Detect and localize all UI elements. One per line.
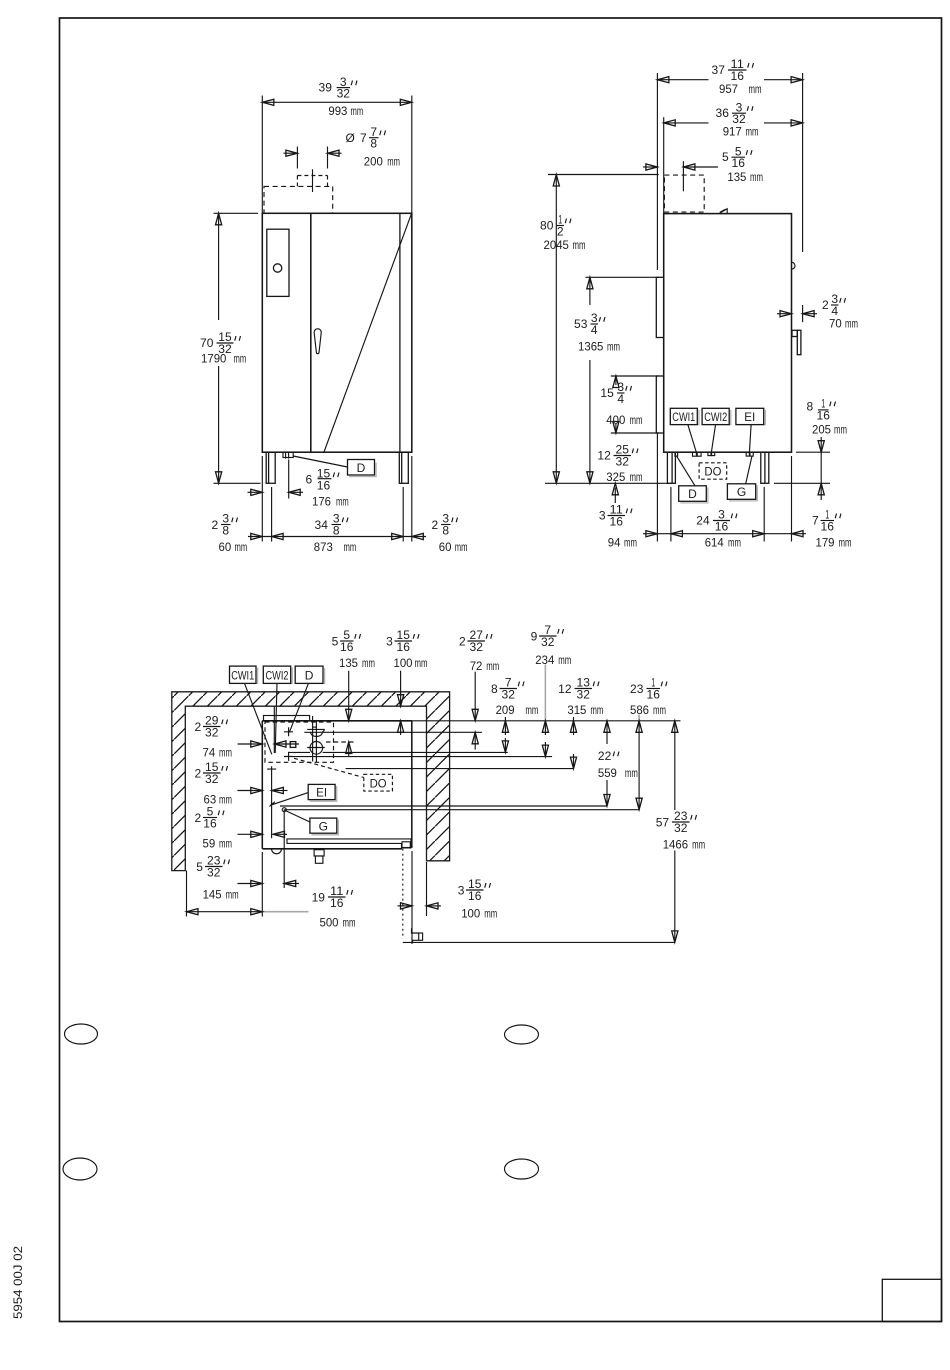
dim 200 vent: arrowheads bbox=[286, 150, 298, 156]
left dim row 74 bbox=[238, 743, 263, 745]
svg-text:16: 16 bbox=[715, 519, 729, 533]
svg-text:200: 200 bbox=[364, 155, 383, 169]
svg-text:179: 179 bbox=[816, 535, 835, 549]
svg-text:mm: mm bbox=[625, 766, 638, 780]
svg-text:32: 32 bbox=[205, 725, 219, 739]
left foot side bbox=[667, 452, 675, 483]
appliance right edge bbox=[411, 721, 413, 848]
svg-text:mm: mm bbox=[834, 423, 847, 437]
square CWI2 plan bbox=[290, 742, 296, 748]
dim 176 drain: arrowheads bbox=[251, 489, 263, 495]
label G box plan bbox=[312, 820, 339, 835]
svg-text:mm: mm bbox=[234, 351, 247, 365]
svg-text:mm: mm bbox=[590, 703, 603, 717]
svg-text:mm: mm bbox=[387, 155, 400, 169]
long line 234mm bbox=[284, 756, 552, 758]
long line 559mm bbox=[280, 805, 607, 807]
dim 957: arrowheads bbox=[657, 77, 669, 83]
drain fitting bbox=[283, 452, 293, 457]
cross EI plan bbox=[267, 766, 276, 838]
svg-text:D: D bbox=[688, 487, 697, 501]
svg-text:mm: mm bbox=[607, 340, 620, 354]
svg-text:mm: mm bbox=[484, 907, 497, 921]
svg-text:586: 586 bbox=[630, 703, 649, 717]
svg-text:16: 16 bbox=[317, 478, 331, 492]
svg-text:mm: mm bbox=[845, 317, 858, 331]
svg-text:145: 145 bbox=[203, 888, 222, 902]
dim 205 feet: arrowheads bbox=[818, 441, 824, 453]
svg-text:D: D bbox=[305, 669, 314, 683]
left dim row 59 bbox=[238, 833, 263, 835]
dim 70 door bbox=[802, 305, 804, 322]
svg-text:mm: mm bbox=[728, 535, 741, 549]
svg-text:D: D bbox=[357, 461, 366, 475]
svg-text:4: 4 bbox=[617, 392, 624, 406]
svg-text:G: G bbox=[319, 819, 328, 833]
punch hole bottom-left bbox=[63, 1158, 97, 1180]
cabinet body side bbox=[664, 214, 792, 453]
svg-text:CWI2: CWI2 bbox=[704, 410, 727, 424]
svg-text:16: 16 bbox=[610, 514, 624, 528]
leader EI bbox=[749, 425, 751, 454]
col 315 bbox=[573, 717, 575, 735]
bottom dim 500: arrowheads bbox=[187, 909, 199, 915]
svg-text:24: 24 bbox=[696, 514, 710, 528]
vent dashed box side bbox=[664, 175, 704, 212]
svg-text:8: 8 bbox=[333, 523, 340, 537]
hinge arc plan bbox=[272, 849, 282, 854]
svg-text:8: 8 bbox=[491, 682, 498, 696]
svg-text:2: 2 bbox=[195, 720, 202, 734]
svg-text:2045: 2045 bbox=[544, 238, 570, 252]
dim 135 vent side bbox=[643, 166, 657, 168]
door swing diagonal bbox=[324, 214, 412, 452]
svg-text:16: 16 bbox=[817, 408, 831, 422]
svg-text:3: 3 bbox=[386, 635, 393, 649]
label CWI1 box side bbox=[672, 410, 699, 425]
bottom dim 100 gap: arrowheads bbox=[401, 903, 413, 909]
label DO dashed box plan bbox=[364, 774, 393, 791]
cross CWI1 plan bbox=[284, 752, 293, 761]
long line 1466mm bbox=[403, 941, 675, 943]
leader CWI2 bbox=[711, 425, 715, 454]
col 72 bbox=[474, 672, 476, 721]
leader CWI1 bbox=[688, 425, 697, 455]
bottom dim 500 bbox=[186, 871, 188, 917]
svg-text:2: 2 bbox=[557, 224, 564, 238]
vent arc bbox=[311, 730, 325, 737]
label CWI1 box plan bbox=[231, 668, 258, 684]
svg-text:mm: mm bbox=[558, 653, 571, 667]
svg-text:12: 12 bbox=[597, 449, 611, 463]
col 1466 bbox=[674, 721, 676, 810]
svg-text:mm: mm bbox=[749, 82, 762, 96]
svg-text:mm: mm bbox=[839, 535, 852, 549]
leader CWI1 plan bbox=[245, 683, 272, 754]
svg-text:12: 12 bbox=[558, 682, 572, 696]
dim 1790 left bbox=[214, 212, 259, 214]
dim 1365 bbox=[585, 276, 658, 278]
svg-text:57: 57 bbox=[656, 816, 670, 830]
G dot bbox=[282, 808, 286, 812]
cross D drain plan bbox=[284, 727, 293, 736]
vent pipe dashed sides bbox=[296, 176, 298, 187]
label CWI2 box plan bbox=[265, 668, 292, 684]
svg-text:Ø: Ø bbox=[346, 131, 355, 145]
dim 993 top bbox=[261, 96, 263, 214]
bottom dim row side 94/614/179 bbox=[656, 534, 658, 542]
dim 917 bbox=[663, 117, 665, 213]
dim 325: arrowheads bbox=[612, 483, 618, 495]
svg-text:16: 16 bbox=[340, 640, 354, 654]
svg-text:100: 100 bbox=[394, 656, 413, 670]
D fitting side bbox=[675, 452, 678, 456]
door hinge block plan bbox=[402, 842, 410, 848]
svg-text:32: 32 bbox=[337, 86, 351, 100]
door slab plan bbox=[287, 839, 411, 848]
col 100 bbox=[400, 671, 402, 707]
punch hole top-right bbox=[505, 1025, 539, 1044]
door divider bbox=[310, 213, 312, 452]
svg-text:4: 4 bbox=[591, 323, 598, 337]
svg-text:8: 8 bbox=[807, 400, 814, 414]
col 559 bbox=[606, 721, 608, 744]
svg-text:7: 7 bbox=[360, 131, 367, 145]
svg-text:6: 6 bbox=[306, 472, 313, 486]
CWI aux vertical bbox=[273, 706, 275, 753]
left dim row 145: arrowheads bbox=[251, 880, 263, 886]
svg-text:G: G bbox=[737, 485, 746, 499]
control panel bbox=[267, 229, 289, 296]
svg-text:32: 32 bbox=[502, 687, 516, 701]
label G box side bbox=[729, 485, 757, 501]
svg-text:32: 32 bbox=[207, 865, 221, 879]
dim 135 vent side: arrowheads bbox=[646, 164, 658, 170]
cabinet body bbox=[262, 213, 412, 452]
svg-text:mm: mm bbox=[746, 125, 759, 139]
left dim row 74: arrowheads bbox=[251, 741, 263, 747]
svg-text:DO: DO bbox=[704, 465, 721, 479]
svg-text:993: 993 bbox=[328, 104, 347, 118]
svg-text:mm: mm bbox=[219, 793, 232, 807]
svg-text:mm: mm bbox=[362, 656, 375, 670]
svg-text:873: 873 bbox=[314, 540, 333, 554]
svg-text:32: 32 bbox=[616, 454, 630, 468]
vent zone dashed box plan bbox=[265, 722, 334, 762]
svg-text:16: 16 bbox=[468, 889, 482, 903]
svg-text:400: 400 bbox=[606, 413, 625, 427]
svg-text:mm: mm bbox=[692, 838, 705, 852]
dim 957 bbox=[656, 73, 658, 175]
svg-text:59: 59 bbox=[203, 837, 216, 851]
dim 2045: arrowheads bbox=[553, 175, 559, 187]
label CWI2 box side bbox=[704, 410, 731, 425]
svg-text:mm: mm bbox=[486, 659, 499, 673]
bottom dim row 60/873/60: arrowheads bbox=[251, 533, 263, 539]
svg-text:5954 00J 02: 5954 00J 02 bbox=[11, 1246, 25, 1319]
label D box side bbox=[680, 487, 708, 503]
leader CWI2 plan bbox=[275, 683, 277, 753]
svg-text:mm: mm bbox=[343, 916, 356, 930]
door handle plan bbox=[314, 850, 324, 856]
svg-text:1466: 1466 bbox=[663, 838, 689, 852]
svg-text:3: 3 bbox=[599, 509, 606, 523]
svg-text:mm: mm bbox=[653, 703, 666, 717]
svg-text:32: 32 bbox=[541, 635, 555, 649]
svg-text:16: 16 bbox=[330, 896, 344, 910]
leader EI plan bbox=[270, 793, 309, 807]
svg-text:16: 16 bbox=[732, 156, 746, 170]
label EI box side bbox=[738, 410, 766, 425]
knob bbox=[273, 264, 281, 272]
label D box bbox=[349, 463, 376, 477]
crosshair arm upper bbox=[307, 728, 325, 730]
appliance back edge + extension to dim columns bbox=[262, 720, 680, 722]
CWI1 fitting bbox=[693, 452, 697, 456]
svg-text:1790: 1790 bbox=[201, 351, 227, 365]
svg-text:23: 23 bbox=[630, 682, 644, 696]
svg-text:22: 22 bbox=[598, 749, 612, 763]
vent center line side bbox=[682, 161, 684, 191]
svg-text:8: 8 bbox=[222, 523, 229, 537]
svg-text:CWI1: CWI1 bbox=[231, 669, 254, 683]
svg-text:60: 60 bbox=[219, 540, 232, 554]
svg-text:2: 2 bbox=[212, 518, 219, 532]
label EI box plan bbox=[310, 786, 337, 801]
vent circle DO bbox=[310, 742, 323, 755]
svg-text:500: 500 bbox=[320, 916, 339, 930]
leader D plan bbox=[289, 683, 308, 732]
svg-text:53: 53 bbox=[574, 317, 588, 331]
punch hole ellipse top-left bbox=[65, 1024, 98, 1044]
leader to D label bbox=[293, 456, 347, 467]
svg-text:mm: mm bbox=[336, 495, 349, 509]
svg-text:2: 2 bbox=[195, 811, 202, 825]
svg-text:2: 2 bbox=[432, 518, 439, 532]
svg-text:9: 9 bbox=[531, 630, 538, 644]
wall rail block lower bbox=[656, 376, 663, 433]
right foot side bbox=[761, 452, 769, 483]
svg-text:mm: mm bbox=[573, 238, 586, 252]
svg-text:mm: mm bbox=[344, 540, 357, 554]
svg-text:34: 34 bbox=[315, 518, 329, 532]
svg-text:mm: mm bbox=[415, 656, 428, 670]
svg-text:DO: DO bbox=[370, 777, 387, 791]
left dim row 145 bbox=[238, 883, 263, 885]
svg-text:mm: mm bbox=[219, 837, 232, 851]
col 586 bbox=[638, 715, 640, 721]
svg-text:37: 37 bbox=[712, 63, 726, 77]
svg-text:16: 16 bbox=[821, 519, 835, 533]
svg-text:mm: mm bbox=[455, 540, 468, 554]
svg-text:614: 614 bbox=[705, 535, 724, 549]
leader DO dashed bbox=[294, 758, 364, 777]
svg-text:5: 5 bbox=[722, 150, 729, 164]
svg-text:3: 3 bbox=[458, 884, 465, 898]
door hinge bump bbox=[792, 262, 796, 269]
svg-text:7: 7 bbox=[812, 514, 819, 528]
leader G plan bbox=[285, 810, 310, 822]
left foot bbox=[266, 452, 275, 483]
svg-text:74: 74 bbox=[203, 746, 216, 760]
svg-text:209: 209 bbox=[496, 703, 515, 717]
dim 1365: arrowheads bbox=[587, 277, 593, 289]
svg-text:32: 32 bbox=[674, 821, 688, 835]
right foot bbox=[399, 452, 408, 483]
svg-text:2: 2 bbox=[822, 298, 829, 312]
dim 200 vent bbox=[296, 147, 298, 169]
leader G bbox=[746, 456, 753, 485]
long line 315mm bbox=[346, 768, 574, 770]
svg-text:36: 36 bbox=[716, 106, 730, 120]
hatched wall (left + top + right) bbox=[172, 692, 450, 871]
long line 209mm bbox=[288, 751, 310, 753]
svg-text:32: 32 bbox=[205, 772, 219, 786]
svg-text:8: 8 bbox=[442, 523, 449, 537]
svg-text:72: 72 bbox=[470, 659, 483, 673]
svg-text:176: 176 bbox=[312, 495, 331, 509]
svg-text:EI: EI bbox=[744, 410, 755, 424]
svg-text:16: 16 bbox=[397, 640, 411, 654]
svg-text:205: 205 bbox=[812, 423, 831, 437]
svg-text:mm: mm bbox=[219, 746, 232, 760]
svg-text:15: 15 bbox=[600, 386, 614, 400]
svg-text:16: 16 bbox=[731, 69, 745, 83]
wall spacer line bbox=[656, 175, 658, 271]
svg-text:mm: mm bbox=[630, 413, 643, 427]
small triangle on top bbox=[720, 209, 728, 213]
svg-text:19: 19 bbox=[312, 891, 326, 905]
svg-text:70: 70 bbox=[829, 317, 842, 331]
dotted door swing line bbox=[402, 849, 404, 939]
wall rail block upper bbox=[656, 277, 663, 337]
dim 400: arrowheads bbox=[613, 376, 619, 388]
svg-text:mm: mm bbox=[525, 703, 538, 717]
svg-text:16: 16 bbox=[647, 687, 661, 701]
svg-text:mm: mm bbox=[235, 540, 248, 554]
appliance left edge bbox=[261, 721, 263, 849]
bottom dim row 60/873/60 bbox=[261, 456, 263, 542]
svg-text:917: 917 bbox=[723, 125, 742, 139]
svg-text:325: 325 bbox=[606, 470, 625, 484]
dim 325 bbox=[614, 488, 616, 504]
svg-text:39: 39 bbox=[319, 80, 333, 94]
leader D side bbox=[677, 456, 695, 486]
svg-text:CWI2: CWI2 bbox=[266, 669, 289, 683]
G vertical extension bbox=[283, 810, 285, 888]
svg-text:5: 5 bbox=[196, 860, 203, 874]
left dim row 59: arrowheads bbox=[251, 831, 263, 837]
dim 70 door: arrowheads bbox=[780, 311, 792, 317]
svg-text:8: 8 bbox=[370, 137, 377, 151]
title block box bottom right bbox=[882, 1279, 941, 1321]
svg-text:32: 32 bbox=[577, 687, 591, 701]
svg-text:70: 70 bbox=[200, 336, 214, 350]
vent center lines bbox=[312, 716, 314, 761]
vent center line bbox=[312, 169, 314, 192]
svg-text:60: 60 bbox=[439, 540, 452, 554]
svg-text:mm: mm bbox=[750, 170, 763, 184]
dim 1790 left: arrowheads bbox=[216, 213, 222, 225]
long line 586mm bbox=[284, 809, 639, 811]
door handle side bbox=[797, 330, 801, 354]
dim 176 drain bbox=[288, 460, 290, 499]
col 135 bbox=[348, 671, 350, 721]
left dim row 63: arrowheads bbox=[251, 787, 263, 793]
label D box plan bbox=[297, 668, 325, 684]
svg-text:mm: mm bbox=[630, 470, 643, 484]
svg-text:315: 315 bbox=[567, 703, 586, 717]
svg-text:1365: 1365 bbox=[578, 340, 604, 354]
bottom dim row side 94/614/179: arrowheads bbox=[646, 531, 658, 537]
svg-text:2: 2 bbox=[459, 635, 466, 649]
appliance back rail bbox=[264, 716, 310, 721]
col 209 bbox=[504, 717, 506, 735]
label DO dashed box side bbox=[699, 463, 727, 479]
svg-text:94: 94 bbox=[608, 536, 621, 550]
crosshair arm lower bbox=[307, 747, 325, 749]
svg-text:mm: mm bbox=[624, 536, 637, 550]
svg-text:135: 135 bbox=[727, 170, 746, 184]
CWI2 fitting bbox=[708, 452, 711, 455]
svg-text:957: 957 bbox=[719, 82, 738, 96]
svg-text:234: 234 bbox=[535, 653, 554, 667]
long line 72mm bbox=[304, 731, 482, 733]
svg-text:32: 32 bbox=[470, 640, 484, 654]
svg-text:16: 16 bbox=[203, 816, 217, 830]
dim 917: arrowheads bbox=[664, 120, 676, 126]
svg-text:135: 135 bbox=[339, 656, 358, 670]
dashes 135mm bbox=[326, 741, 355, 743]
dashed vent housing top bbox=[264, 186, 333, 213]
dim 2045 bbox=[548, 174, 659, 176]
punch hole bottom-right bbox=[505, 1159, 539, 1179]
bottom dim 100 gap bbox=[411, 851, 413, 944]
svg-text:mm: mm bbox=[226, 888, 239, 902]
dim 400 bbox=[611, 375, 659, 377]
open door notch bottom bbox=[412, 928, 419, 942]
appliance front base line bbox=[262, 848, 402, 850]
svg-text:CWI1: CWI1 bbox=[672, 410, 695, 424]
svg-text:5: 5 bbox=[332, 635, 339, 649]
dim 993 top: arrowheads bbox=[262, 99, 274, 105]
door handle front bbox=[314, 329, 321, 354]
col 234 bbox=[544, 665, 546, 721]
svg-text:559: 559 bbox=[598, 766, 617, 780]
svg-text:100: 100 bbox=[461, 907, 480, 921]
dim 205 feet bbox=[796, 451, 830, 453]
svg-text:mm: mm bbox=[351, 104, 364, 118]
svg-text:80: 80 bbox=[540, 219, 554, 233]
svg-text:2: 2 bbox=[195, 767, 202, 781]
svg-text:EI: EI bbox=[316, 786, 327, 800]
EI fitting bbox=[746, 452, 749, 456]
door hinge-side stile bbox=[399, 213, 401, 452]
left dim row 63 bbox=[238, 790, 263, 792]
